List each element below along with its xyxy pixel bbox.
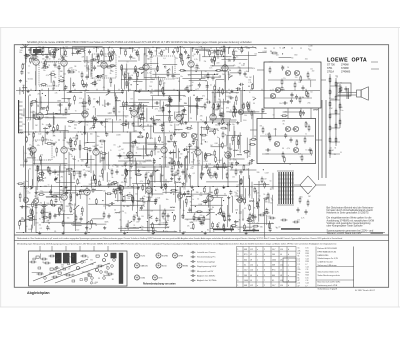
- wire: [242, 86, 244, 109]
- svg-text:4,7k: 4,7k: [46, 75, 49, 77]
- svg-text:L4: L4: [250, 275, 252, 277]
- resistor R240: [241, 46, 243, 53]
- wire box2 rail: [260, 135, 314, 137]
- svg-text:100: 100: [110, 184, 113, 186]
- wire: [44, 208, 46, 216]
- wire: [201, 152, 203, 171]
- capacitor C139: [61, 56, 64, 61]
- wire drop: [96, 47, 98, 52]
- wire to speaker: [338, 92, 357, 94]
- wire: [50, 194, 62, 196]
- wire: [248, 222, 274, 224]
- resistor R212: [50, 199, 52, 206]
- resistor R238: [131, 195, 133, 202]
- svg-text:10k: 10k: [190, 146, 193, 148]
- svg-text:100: 100: [272, 254, 275, 256]
- svg-text:5n: 5n: [101, 51, 103, 53]
- svg-text:200: 200: [142, 111, 145, 113]
- svg-text:500: 500: [100, 147, 103, 149]
- svg-text:25k: 25k: [307, 103, 310, 105]
- svg-text:L10: L10: [250, 265, 253, 267]
- svg-text:10k: 10k: [150, 218, 153, 220]
- wire: [134, 91, 162, 93]
- svg-text:3k: 3k: [178, 81, 180, 83]
- svg-text:B7G: B7G: [159, 277, 163, 279]
- wire: [62, 98, 71, 100]
- svg-text:500: 500: [224, 145, 227, 147]
- svg-text:220: 220: [258, 214, 261, 216]
- svg-text:100: 100: [254, 136, 256, 138]
- wire: [174, 112, 176, 120]
- svg-text:500: 500: [270, 203, 273, 205]
- capacitor C135: [251, 214, 254, 219]
- capacitor C43: [225, 101, 230, 104]
- svg-text:50: 50: [227, 155, 229, 157]
- capacitor C7: [172, 49, 175, 54]
- node junction: [199, 79, 200, 80]
- svg-text:220: 220: [27, 207, 30, 209]
- svg-text:3k: 3k: [42, 124, 44, 126]
- capacitor C133: [263, 197, 268, 200]
- svg-text:50: 50: [85, 112, 87, 114]
- svg-text:25k: 25k: [170, 125, 173, 127]
- svg-text:50: 50: [197, 198, 199, 200]
- capacitor C73: [187, 190, 190, 195]
- svg-text:10k: 10k: [173, 163, 176, 165]
- svg-text:Netz 110 125 220V 50Hz: Netz 110 125 220V 50Hz: [318, 281, 341, 284]
- svg-text:10n: 10n: [183, 96, 186, 98]
- wire: [28, 170, 30, 188]
- capacitor C103: [49, 189, 52, 194]
- resistor R167: [214, 150, 216, 157]
- transistor Q13: [285, 126, 290, 131]
- svg-text:8k: 8k: [179, 124, 181, 126]
- wire: [137, 148, 161, 150]
- coil L3: [155, 119, 160, 122]
- wire resistor lead: [235, 102, 237, 105]
- capacitor C102: [227, 154, 230, 159]
- resistor R159: [89, 99, 91, 106]
- wire: [211, 146, 224, 148]
- node junction: [238, 163, 239, 164]
- wire: [23, 146, 25, 160]
- resistor R272: [37, 178, 44, 180]
- svg-text:3k: 3k: [246, 169, 248, 171]
- svg-text:LOEWE: LOEWE: [327, 57, 348, 63]
- wire: [140, 102, 142, 112]
- capacitor C9: [196, 49, 199, 54]
- wire: [56, 182, 75, 184]
- resistor R211: [204, 154, 206, 161]
- wire: [189, 146, 191, 164]
- wire: [115, 99, 117, 121]
- resistor R84: [235, 169, 237, 176]
- svg-text:3k: 3k: [210, 196, 212, 198]
- resistor R18: [97, 54, 99, 61]
- svg-text:4,7k: 4,7k: [106, 165, 109, 167]
- wire: [66, 190, 103, 192]
- wire: [239, 205, 241, 212]
- svg-text:5n: 5n: [193, 151, 195, 153]
- svg-text:10k: 10k: [67, 218, 70, 220]
- svg-text:Abgleich bei 468kHz: Abgleich bei 468kHz: [197, 275, 215, 278]
- wire stage bottom: [178, 120, 180, 123]
- coil L1: [171, 151, 176, 154]
- node junction: [102, 200, 103, 201]
- svg-text:200: 200: [42, 58, 45, 60]
- svg-text:500: 500: [215, 110, 218, 112]
- svg-text:50: 50: [49, 58, 51, 60]
- capacitor C44: [25, 158, 28, 163]
- svg-text:330: 330: [63, 140, 66, 142]
- svg-text:Schirmung angelegt: Schirmung angelegt: [197, 260, 215, 263]
- svg-text:25k: 25k: [86, 109, 89, 111]
- svg-text:EF89: EF89: [179, 255, 184, 257]
- svg-text:10n: 10n: [43, 70, 46, 72]
- svg-text:L10: L10: [280, 280, 283, 282]
- wire: [172, 149, 174, 162]
- svg-text:1k: 1k: [166, 184, 168, 186]
- svg-text:0,1: 0,1: [60, 202, 62, 204]
- wire: [151, 95, 186, 97]
- node junction: [100, 184, 101, 185]
- svg-text:a: a: [257, 285, 258, 287]
- capacitor C32: [169, 98, 172, 103]
- node junction: [96, 47, 97, 48]
- svg-text:330: 330: [239, 213, 242, 215]
- wire: [165, 105, 196, 107]
- bridge rectifier GR1: [300, 176, 316, 194]
- wire: [23, 108, 25, 116]
- wire: [249, 102, 251, 113]
- wire: [150, 125, 152, 139]
- svg-text:330: 330: [141, 229, 144, 231]
- wire stage top: [63, 47, 65, 60]
- capacitor C140: [153, 159, 156, 164]
- capacitor C4: [88, 49, 91, 54]
- wire: [121, 65, 123, 76]
- wire: [179, 193, 211, 195]
- svg-text:50: 50: [192, 82, 194, 84]
- capacitor C42: [196, 99, 201, 102]
- wire: [145, 77, 166, 79]
- capacitor C68: [155, 217, 158, 222]
- svg-text:0,1: 0,1: [171, 132, 173, 134]
- wire: [152, 96, 154, 109]
- svg-text:70: 70: [159, 220, 161, 222]
- wire: [212, 92, 239, 94]
- svg-text:0,1: 0,1: [86, 171, 88, 173]
- svg-text:4,7k: 4,7k: [142, 206, 145, 208]
- svg-text:2,2: 2,2: [298, 283, 300, 285]
- node junction: [46, 114, 47, 115]
- svg-text:50: 50: [53, 157, 55, 159]
- node junction: [162, 87, 163, 88]
- svg-text:3k: 3k: [89, 199, 91, 201]
- svg-text:g: g: [257, 265, 258, 267]
- svg-text:1k: 1k: [237, 191, 239, 193]
- resistor R193: [66, 168, 73, 170]
- tube V14: [93, 149, 99, 155]
- svg-text:330: 330: [260, 227, 263, 229]
- ground: [170, 177, 173, 180]
- svg-text:C 8: C 8: [306, 269, 309, 271]
- svg-text:1k: 1k: [197, 89, 199, 91]
- svg-text:3k: 3k: [155, 190, 157, 192]
- node junction: [193, 95, 194, 96]
- svg-text:50: 50: [122, 166, 124, 168]
- resistor R95: [81, 207, 83, 214]
- node junction: [91, 70, 92, 71]
- capacitor C41: [154, 102, 159, 105]
- capacitor C20: [86, 74, 89, 79]
- svg-text:25k: 25k: [248, 156, 251, 158]
- wire stage top: [163, 122, 165, 147]
- node junction: [172, 212, 173, 213]
- output transformer T1: [347, 88, 348, 99]
- wire: [156, 231, 178, 233]
- wire box1 out: [321, 79, 326, 81]
- resistor R277: [95, 178, 97, 185]
- capacitor C1: [40, 49, 43, 54]
- wire: [201, 126, 203, 144]
- node junction: [39, 116, 40, 117]
- ground: [245, 232, 248, 235]
- wire: [150, 173, 152, 193]
- ground: [204, 232, 207, 235]
- resistor R198: [159, 79, 161, 86]
- capacitor C15: [135, 51, 138, 56]
- capacitor C11: [72, 82, 75, 87]
- node junction: [131, 186, 132, 187]
- wire: [63, 87, 65, 102]
- resistor R51: [113, 107, 115, 114]
- wire: [151, 189, 153, 197]
- resistor R162: [82, 79, 84, 86]
- tube V2: [61, 60, 67, 66]
- wire drop: [108, 47, 110, 51]
- svg-text:10k: 10k: [271, 223, 274, 225]
- svg-text:50: 50: [102, 125, 104, 127]
- node junction: [205, 186, 206, 187]
- wire: [219, 100, 221, 106]
- wire: [185, 175, 187, 186]
- resistor R120: [305, 90, 307, 97]
- wire: [63, 213, 65, 222]
- svg-text:200: 200: [45, 117, 48, 119]
- capacitor C154: [92, 58, 97, 61]
- svg-text:10n: 10n: [209, 68, 212, 70]
- resistor R231: [148, 179, 150, 186]
- wire stage top: [35, 187, 37, 199]
- svg-text:2: 2: [237, 270, 238, 272]
- svg-text:0,1: 0,1: [193, 173, 196, 175]
- capacitor C63: [69, 202, 72, 207]
- wire: [36, 165, 38, 190]
- svg-text:3k: 3k: [221, 108, 223, 110]
- wire: [44, 202, 46, 223]
- svg-text:50: 50: [89, 222, 91, 224]
- wire: [58, 207, 60, 215]
- svg-text:50: 50: [25, 153, 27, 155]
- svg-text:70: 70: [103, 275, 105, 277]
- node junction: [191, 90, 192, 91]
- svg-text:0,5M: 0,5M: [204, 161, 208, 163]
- svg-text:220: 220: [27, 219, 30, 221]
- svg-text:50: 50: [71, 156, 73, 158]
- resistor R101: [216, 188, 218, 195]
- svg-text:3k: 3k: [78, 160, 80, 162]
- ground: [52, 142, 55, 145]
- svg-text:5n: 5n: [223, 118, 225, 120]
- wire drop: [192, 47, 194, 52]
- resistor R228: [37, 165, 39, 172]
- svg-text:L12: L12: [280, 265, 283, 267]
- wire: [33, 162, 68, 164]
- svg-text:10k: 10k: [209, 163, 212, 165]
- svg-text:468: 468: [272, 265, 275, 267]
- node junction: [162, 156, 163, 157]
- svg-text:1: 1: [264, 265, 265, 267]
- svg-text:10n: 10n: [291, 58, 294, 60]
- wire: [129, 101, 149, 103]
- svg-text:50: 50: [69, 106, 71, 108]
- capacitor C70: [141, 197, 144, 202]
- wire: [146, 108, 148, 122]
- svg-text:R61: R61: [306, 250, 309, 252]
- resistor R261: [217, 212, 224, 214]
- wire: [177, 148, 179, 168]
- svg-text:47k: 47k: [143, 65, 146, 67]
- svg-text:8k: 8k: [119, 146, 121, 148]
- transistor Q1: [238, 109, 243, 114]
- input coil box L1: [39, 62, 59, 86]
- svg-text:200: 200: [147, 190, 150, 192]
- node junction: [163, 230, 164, 231]
- wire: [258, 52, 267, 54]
- wire resistor lead: [122, 108, 124, 111]
- wire stage bottom: [32, 153, 34, 186]
- svg-text:10n: 10n: [217, 92, 220, 94]
- coil L8: [41, 107, 46, 110]
- svg-text:330: 330: [157, 48, 160, 50]
- wire box1 in: [257, 69, 264, 71]
- capacitor C48: [118, 153, 121, 158]
- node junction: [69, 174, 70, 175]
- divider line lower: [14, 239, 388, 241]
- resistor R166: [192, 223, 194, 230]
- svg-text:70: 70: [112, 166, 114, 168]
- svg-text:3k: 3k: [119, 219, 121, 221]
- wire: [115, 164, 154, 166]
- resistor R271: [106, 193, 113, 195]
- svg-text:10n: 10n: [217, 130, 220, 132]
- node junction: [128, 186, 129, 187]
- svg-text:8k: 8k: [335, 148, 337, 150]
- resistor R280: [213, 103, 215, 110]
- resistor R209: [165, 183, 167, 190]
- svg-text:EZ80: EZ80: [141, 277, 146, 279]
- svg-text:C31: C31: [306, 256, 309, 258]
- wire: [123, 73, 125, 90]
- resistor R118: [307, 92, 309, 99]
- resistor R16: [110, 77, 112, 84]
- svg-text:200: 200: [112, 54, 115, 56]
- node junction: [109, 47, 110, 48]
- svg-text:330: 330: [147, 231, 150, 233]
- svg-text:10n: 10n: [174, 231, 176, 233]
- node junction: [147, 221, 148, 222]
- capacitor C85: [254, 214, 257, 219]
- wire: [226, 136, 228, 146]
- wire: [104, 100, 106, 107]
- capacitor C82: [167, 213, 170, 218]
- svg-text:200: 200: [133, 104, 136, 106]
- wire: [242, 176, 244, 200]
- wire: [27, 204, 63, 206]
- svg-text:0,5M: 0,5M: [90, 180, 94, 182]
- svg-text:5n: 5n: [66, 56, 68, 58]
- wire: [138, 99, 169, 101]
- svg-text:EC92: EC92: [141, 255, 146, 257]
- svg-text:8k: 8k: [283, 124, 285, 126]
- svg-text:4,7k: 4,7k: [136, 79, 139, 81]
- coil L15: [115, 212, 120, 215]
- svg-text:100: 100: [38, 133, 41, 135]
- wire: [80, 159, 94, 161]
- svg-text:10,7: 10,7: [244, 270, 248, 272]
- resistor R74: [232, 136, 234, 143]
- svg-text:0,1: 0,1: [207, 199, 209, 201]
- svg-text:4,7k: 4,7k: [55, 93, 58, 95]
- svg-text:220: 220: [295, 77, 298, 79]
- svg-text:L15: L15: [306, 248, 309, 250]
- svg-text:25k: 25k: [135, 215, 138, 217]
- svg-text:330: 330: [21, 115, 24, 117]
- capacitor C14: [150, 51, 153, 56]
- svg-text:25k: 25k: [163, 82, 166, 84]
- svg-text:10k: 10k: [49, 50, 52, 52]
- resistor R206: [109, 65, 116, 67]
- svg-text:5k: 5k: [298, 275, 300, 277]
- wire: [41, 221, 80, 223]
- node junction: [45, 95, 46, 96]
- resistor R189: [139, 103, 141, 110]
- wire: [209, 175, 217, 177]
- node junction: [59, 90, 60, 91]
- resistor R285: [135, 65, 137, 72]
- resistor R73: [207, 124, 209, 131]
- svg-text:70: 70: [206, 51, 208, 53]
- resistor R65: [102, 168, 104, 175]
- wire: [54, 192, 77, 194]
- capacitor C107: [129, 54, 132, 59]
- node junction: [127, 131, 128, 132]
- wire: [182, 200, 184, 219]
- wire: [130, 133, 132, 153]
- resistor R54: [233, 105, 235, 112]
- capacitor C111: [199, 220, 202, 225]
- wire: [68, 98, 70, 110]
- wire: [135, 73, 137, 92]
- svg-text:600: 600: [272, 275, 275, 277]
- svg-text:220: 220: [72, 137, 75, 139]
- svg-text:50: 50: [30, 189, 32, 191]
- svg-text:47k: 47k: [96, 102, 99, 104]
- svg-text:OPTA: OPTA: [352, 57, 368, 63]
- resistor R38: [123, 101, 125, 108]
- resistor R190: [26, 136, 28, 143]
